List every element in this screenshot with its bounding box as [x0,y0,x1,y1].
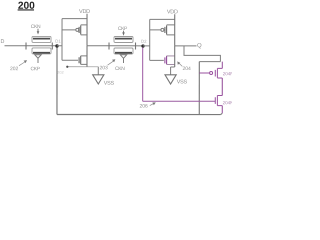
svg-text:204N: 204N [223,100,232,105]
svg-text:Q: Q [197,43,202,49]
svg-text:VSS: VSS [177,79,188,85]
svg-text:204: 204 [182,66,191,72]
svg-text:VSS: VSS [104,81,115,87]
svg-text:203: 203 [99,65,108,71]
svg-text:CKP: CKP [118,26,128,32]
svg-text:D: D [1,39,5,45]
svg-text:204P: 204P [223,71,232,76]
svg-text:CKN: CKN [115,66,125,72]
svg-text:D1: D1 [55,39,61,44]
svg-text:CKP: CKP [30,66,40,72]
svg-text:202: 202 [57,70,64,75]
svg-text:202: 202 [10,66,19,72]
svg-text:206: 206 [139,104,148,110]
svg-text:CKN: CKN [31,24,41,30]
svg-text:D2: D2 [141,39,147,44]
svg-text:VDD: VDD [167,9,178,15]
svg-text:VDD: VDD [79,9,90,15]
